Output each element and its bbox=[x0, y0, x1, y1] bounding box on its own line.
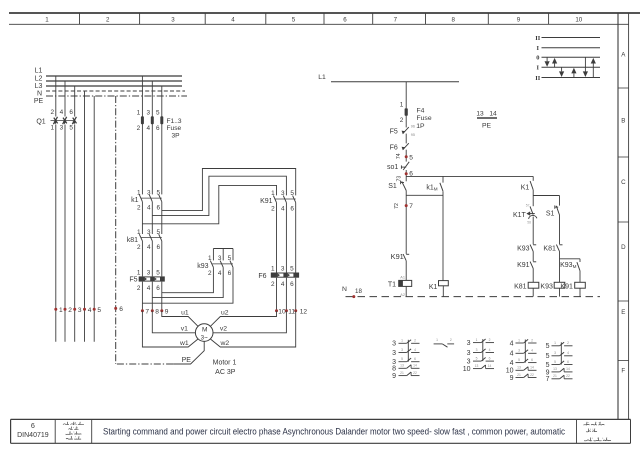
node 6 (wire 73) bbox=[405, 172, 408, 175]
node 8 bbox=[151, 309, 154, 312]
svg-text:F1..3: F1..3 bbox=[167, 118, 182, 125]
svg-text:2: 2 bbox=[567, 341, 569, 345]
wire K1T to contact K93 bbox=[532, 217, 534, 245]
svg-text:3: 3 bbox=[281, 266, 285, 273]
svg-text:7: 7 bbox=[546, 376, 550, 383]
svg-text:1: 1 bbox=[476, 338, 478, 342]
wire node 8 to motor v1 bbox=[152, 311, 195, 333]
svg-text:K91: K91 bbox=[260, 198, 273, 205]
svg-text:6: 6 bbox=[531, 358, 533, 362]
wire S1 to node 7 bbox=[405, 191, 407, 254]
svg-text:6: 6 bbox=[156, 204, 160, 211]
wire PE to motor (dash-dot) bbox=[116, 363, 173, 365]
svg-text:5: 5 bbox=[546, 353, 550, 360]
svg-text:F6: F6 bbox=[258, 273, 266, 280]
svg-text:3: 3 bbox=[467, 350, 471, 357]
wire node 11 to motor v2 bbox=[213, 311, 286, 333]
svg-text:K81: K81 bbox=[543, 245, 556, 252]
svg-text:1: 1 bbox=[400, 102, 404, 109]
svg-text:1: 1 bbox=[137, 189, 141, 196]
svg-text:T1: T1 bbox=[388, 282, 396, 289]
node 7 (wire 72) bbox=[405, 204, 408, 207]
node 6 bbox=[114, 307, 117, 310]
svg-text:Fuse: Fuse bbox=[167, 125, 182, 132]
wire F5 pole1 to node 7 bbox=[141, 282, 143, 311]
svg-text:3P: 3P bbox=[172, 133, 181, 140]
svg-text:2: 2 bbox=[271, 205, 275, 212]
svg-text:4: 4 bbox=[567, 351, 569, 355]
wire K81 contact to coil K93 bbox=[559, 251, 561, 282]
svg-text:4: 4 bbox=[531, 349, 533, 353]
svg-text:6: 6 bbox=[567, 360, 569, 364]
wire node 12 to motor w2 bbox=[210, 311, 295, 347]
svg-text:v2: v2 bbox=[220, 326, 227, 333]
svg-text:4: 4 bbox=[88, 307, 92, 314]
svg-text:N: N bbox=[342, 286, 347, 293]
svg-text:8: 8 bbox=[155, 309, 159, 316]
svg-text:K93: K93 bbox=[540, 284, 553, 291]
svg-text:2: 2 bbox=[137, 204, 141, 211]
wire K1 contact to junction bbox=[532, 190, 534, 206]
wire PE distribution bbox=[115, 96, 117, 364]
svg-text:22: 22 bbox=[530, 373, 534, 377]
svg-text:6: 6 bbox=[414, 357, 416, 361]
svg-text:1: 1 bbox=[401, 339, 403, 343]
svg-text:1P: 1P bbox=[416, 123, 425, 130]
wire so1 to node 6 bbox=[405, 170, 407, 181]
svg-text:5: 5 bbox=[290, 266, 294, 273]
svg-text:9: 9 bbox=[165, 309, 169, 316]
svg-text:4: 4 bbox=[147, 125, 151, 132]
wire coil K1 to N bbox=[442, 286, 444, 297]
wire F5 pole3 to node 9 bbox=[161, 282, 163, 311]
svg-text:21: 21 bbox=[553, 374, 557, 378]
svg-text:96: 96 bbox=[411, 125, 415, 129]
svg-text:K81: K81 bbox=[514, 284, 527, 291]
node 12 bbox=[294, 309, 297, 312]
svg-text:L1: L1 bbox=[35, 68, 43, 75]
svg-text:II: II bbox=[535, 35, 540, 42]
node 3 bbox=[73, 308, 76, 311]
svg-text:2: 2 bbox=[137, 285, 141, 292]
svg-text:3: 3 bbox=[467, 340, 471, 347]
svg-text:14: 14 bbox=[530, 366, 534, 370]
svg-text:5: 5 bbox=[69, 125, 73, 132]
svg-text:3: 3 bbox=[171, 17, 175, 24]
svg-text:S1: S1 bbox=[388, 183, 397, 190]
svg-text:K91: K91 bbox=[560, 284, 573, 291]
svg-text:74: 74 bbox=[396, 153, 402, 159]
svg-text:10: 10 bbox=[575, 17, 582, 24]
svg-text:1: 1 bbox=[518, 338, 520, 342]
svg-text:F5: F5 bbox=[390, 129, 398, 136]
node 4 bbox=[83, 308, 86, 311]
wire Q1 pole1 to node 1 bbox=[55, 125, 57, 342]
svg-text:3: 3 bbox=[554, 351, 556, 355]
svg-text:2: 2 bbox=[137, 125, 141, 132]
wire node 7 to motor w1 bbox=[142, 311, 198, 347]
wire node 6 to right branches bbox=[406, 175, 533, 177]
svg-text:1: 1 bbox=[436, 338, 438, 342]
node 2 bbox=[64, 308, 67, 311]
svg-text:1: 1 bbox=[271, 266, 275, 273]
svg-text:5: 5 bbox=[292, 17, 296, 24]
svg-text:5: 5 bbox=[554, 360, 556, 364]
svg-text:13: 13 bbox=[553, 367, 557, 371]
svg-text:1: 1 bbox=[137, 269, 141, 276]
svg-text:6: 6 bbox=[69, 109, 73, 116]
svg-text:3: 3 bbox=[147, 110, 151, 117]
wire K91 to overload F6 pole2 bbox=[285, 203, 287, 273]
bus L3 bbox=[46, 85, 182, 87]
wire K91 contact to coil T1 bbox=[405, 261, 407, 281]
svg-text:2: 2 bbox=[50, 109, 54, 116]
wire coil K93 to N bbox=[559, 288, 561, 296]
svg-text:8: 8 bbox=[451, 17, 455, 24]
svg-text:E: E bbox=[621, 309, 625, 316]
svg-text:F4: F4 bbox=[417, 107, 425, 114]
svg-text:2: 2 bbox=[531, 338, 533, 342]
svg-text:2: 2 bbox=[450, 338, 452, 342]
junction to K93M branch bbox=[560, 258, 581, 260]
wire K93 contact to contact K91 bbox=[532, 251, 534, 261]
node 7 bbox=[141, 309, 144, 312]
svg-text:12: 12 bbox=[300, 308, 308, 315]
svg-text:4: 4 bbox=[147, 285, 151, 292]
wire k81 to overload F5 pole1 bbox=[141, 241, 143, 277]
svg-text:F6: F6 bbox=[390, 145, 398, 152]
node 11 bbox=[285, 309, 288, 312]
svg-text:10: 10 bbox=[463, 366, 471, 373]
wire contact F6 to node 5 bbox=[405, 150, 407, 162]
wire k93 pole2 to node 8 bbox=[152, 267, 223, 297]
svg-text:4: 4 bbox=[510, 351, 514, 358]
svg-text:9: 9 bbox=[510, 375, 514, 382]
svg-text:u2: u2 bbox=[221, 309, 229, 316]
svg-text:10: 10 bbox=[278, 308, 286, 315]
svg-text:73: 73 bbox=[396, 176, 402, 182]
svg-text:6: 6 bbox=[290, 205, 294, 212]
svg-text:95: 95 bbox=[411, 133, 415, 137]
node 9 bbox=[160, 309, 163, 312]
svg-text:Motor 1: Motor 1 bbox=[213, 360, 237, 367]
junction to S1 branch bbox=[533, 195, 559, 197]
auxiliary contact k1M bbox=[442, 176, 444, 182]
svg-text:5: 5 bbox=[97, 307, 101, 314]
svg-text:k1: k1 bbox=[131, 197, 139, 204]
wire coil K91 to N bbox=[579, 288, 581, 296]
svg-text:4: 4 bbox=[147, 204, 151, 211]
svg-text:5: 5 bbox=[409, 154, 413, 161]
svg-text:14: 14 bbox=[413, 364, 417, 368]
svg-text:2: 2 bbox=[414, 339, 416, 343]
svg-text:N: N bbox=[37, 91, 42, 98]
wire k93 pole3 to node 7 bbox=[142, 267, 233, 303]
wire L1 to fuse F4 bbox=[405, 82, 407, 109]
svg-text:13: 13 bbox=[517, 366, 521, 370]
svg-text:4: 4 bbox=[60, 109, 64, 116]
wire k1M to coil K1 bbox=[442, 191, 444, 280]
svg-text:L1: L1 bbox=[318, 74, 326, 81]
node 5 bbox=[93, 308, 96, 311]
svg-text:6: 6 bbox=[119, 306, 123, 313]
svg-text:11: 11 bbox=[288, 308, 295, 315]
svg-text:1: 1 bbox=[59, 307, 63, 314]
svg-text:DIN40719: DIN40719 bbox=[17, 432, 49, 439]
wire S1 to contact K81 bbox=[559, 215, 561, 244]
svg-text:5: 5 bbox=[546, 362, 550, 369]
svg-text:57: 57 bbox=[526, 204, 530, 208]
svg-text:u1: u1 bbox=[181, 309, 189, 316]
wire junction to contact S1 bbox=[559, 196, 561, 206]
svg-text:22: 22 bbox=[566, 374, 570, 378]
svg-text:7: 7 bbox=[394, 17, 398, 24]
svg-text:6: 6 bbox=[290, 281, 294, 288]
svg-text:k93: k93 bbox=[197, 263, 208, 270]
node 10 bbox=[275, 309, 278, 312]
svg-text:4: 4 bbox=[281, 281, 285, 288]
svg-text:4: 4 bbox=[231, 17, 235, 24]
svg-text:5: 5 bbox=[518, 358, 520, 362]
svg-text:5: 5 bbox=[546, 343, 550, 350]
svg-text:13: 13 bbox=[475, 364, 479, 368]
svg-text:6: 6 bbox=[156, 285, 160, 292]
wire k1 to k81 pole3 bbox=[161, 202, 163, 234]
svg-text:10: 10 bbox=[506, 368, 514, 375]
svg-text:22: 22 bbox=[413, 371, 417, 375]
wire k93 pole1 to node 9 bbox=[162, 267, 214, 292]
wire F6 pole2 to node 11 bbox=[285, 278, 287, 311]
wire node 9 to motor u1 bbox=[162, 311, 198, 327]
svg-text:2: 2 bbox=[400, 117, 404, 124]
wire contact F5 to contact F6 bbox=[405, 134, 407, 144]
wire k1 to k81 pole1 bbox=[141, 202, 143, 234]
svg-text:II: II bbox=[535, 75, 540, 82]
svg-text:6: 6 bbox=[156, 244, 160, 251]
svg-text:18: 18 bbox=[355, 288, 362, 295]
svg-text:K1T: K1T bbox=[513, 212, 527, 219]
wire k1 pole3 to K91 pole3 bbox=[162, 169, 296, 211]
svg-text:5: 5 bbox=[156, 189, 160, 196]
svg-text:3: 3 bbox=[476, 348, 478, 352]
svg-text:S1: S1 bbox=[546, 211, 555, 218]
svg-text:4: 4 bbox=[218, 270, 222, 277]
wire K91 to overload F6 pole3 bbox=[295, 203, 297, 273]
wire F6 pole3 to node 12 bbox=[295, 278, 297, 311]
fuse F1..3 3P bbox=[141, 116, 144, 124]
svg-text:M: M bbox=[202, 326, 208, 333]
svg-text:9: 9 bbox=[392, 373, 396, 380]
svg-text:D: D bbox=[621, 244, 626, 251]
wire K91 contact to coil K81 bbox=[532, 268, 534, 282]
control bus L1 bbox=[331, 81, 459, 83]
wire branch to contact K1 bbox=[532, 176, 534, 180]
svg-text:Fuse: Fuse bbox=[417, 115, 432, 122]
svg-text:so1: so1 bbox=[387, 164, 398, 171]
svg-text:6: 6 bbox=[228, 270, 232, 277]
wire Q1 pole2 to node 2 bbox=[64, 125, 66, 342]
motor M1 AC 3P bbox=[195, 324, 213, 342]
svg-text:3: 3 bbox=[78, 307, 82, 314]
wire K91 to overload F6 pole1 bbox=[276, 203, 278, 273]
svg-text:3: 3 bbox=[392, 341, 396, 348]
svg-text:0: 0 bbox=[536, 55, 539, 62]
node 18 bbox=[352, 295, 355, 298]
svg-text:3: 3 bbox=[392, 350, 396, 357]
svg-text:6: 6 bbox=[489, 356, 491, 360]
wire k81 to overload F5 pole2 bbox=[151, 241, 153, 277]
wire k1 pole1 to K91 pole1 bbox=[142, 185, 276, 223]
svg-text:5: 5 bbox=[401, 357, 403, 361]
svg-text:B: B bbox=[621, 118, 625, 125]
svg-text:AC 3P: AC 3P bbox=[215, 369, 236, 376]
svg-text:C: C bbox=[621, 179, 626, 186]
svg-text:5: 5 bbox=[156, 269, 160, 276]
svg-text:F5: F5 bbox=[129, 277, 137, 284]
svg-text:6: 6 bbox=[31, 421, 35, 430]
svg-text:21: 21 bbox=[517, 373, 521, 377]
bus L1 bbox=[46, 75, 182, 77]
svg-text:1: 1 bbox=[45, 17, 49, 24]
svg-text:w1: w1 bbox=[179, 340, 189, 347]
svg-text:1: 1 bbox=[554, 341, 556, 345]
junction S1 / k1M bbox=[406, 194, 443, 196]
svg-text:2: 2 bbox=[489, 338, 491, 342]
svg-text:4: 4 bbox=[489, 348, 491, 352]
svg-text:w2: w2 bbox=[219, 340, 229, 347]
svg-text:14: 14 bbox=[488, 364, 492, 368]
svg-text:Q1: Q1 bbox=[36, 119, 45, 126]
svg-text:2: 2 bbox=[137, 244, 141, 251]
wire coil T1 to N bbox=[405, 286, 407, 296]
svg-text:2: 2 bbox=[208, 270, 212, 277]
wire k81 to overload F5 pole3 bbox=[161, 241, 163, 277]
node 1 bbox=[54, 308, 57, 311]
bus PE bbox=[46, 95, 187, 97]
bus L2 bbox=[46, 80, 182, 82]
wire k1 pole2 to K91 pole2 bbox=[152, 176, 286, 215]
svg-text:k1M: k1M bbox=[426, 184, 437, 191]
contactor k93 star bridge bbox=[213, 248, 233, 250]
svg-text:L3: L3 bbox=[35, 83, 43, 90]
svg-text:K91: K91 bbox=[517, 262, 530, 269]
svg-text:2: 2 bbox=[271, 281, 275, 288]
svg-text:21: 21 bbox=[400, 371, 404, 375]
svg-text:PE: PE bbox=[34, 98, 44, 105]
svg-text:K1: K1 bbox=[429, 284, 438, 291]
svg-text:2: 2 bbox=[106, 17, 110, 24]
svg-text:2: 2 bbox=[68, 307, 72, 314]
svg-text:7: 7 bbox=[409, 203, 413, 210]
svg-text:4: 4 bbox=[414, 348, 416, 352]
svg-text:4: 4 bbox=[281, 205, 285, 212]
svg-text:4: 4 bbox=[147, 244, 151, 251]
wire L1 drop to Q1 bbox=[55, 76, 57, 117]
title block bbox=[11, 418, 631, 420]
wire motor PE lead bbox=[173, 341, 204, 364]
svg-text:1: 1 bbox=[50, 125, 54, 132]
wire L2 to fuse F2 bbox=[151, 81, 153, 194]
svg-text:K1: K1 bbox=[521, 184, 530, 191]
svg-text:3: 3 bbox=[60, 125, 64, 132]
svg-text:Starting command and power cir: Starting command and power circuit elect… bbox=[103, 427, 565, 437]
svg-text:A1: A1 bbox=[400, 275, 405, 279]
wire PE drop to node 5 bbox=[93, 96, 95, 342]
contact table so1 bbox=[434, 343, 443, 345]
svg-text:3: 3 bbox=[147, 189, 151, 196]
svg-text:3: 3 bbox=[147, 269, 151, 276]
wire node 10 to motor u2 bbox=[210, 311, 276, 327]
wire L1 to fuse F1 bbox=[141, 76, 143, 194]
wire L3 to fuse F3 bbox=[161, 86, 163, 194]
svg-text:4: 4 bbox=[510, 340, 514, 347]
svg-text:58: 58 bbox=[527, 220, 531, 224]
svg-text:7: 7 bbox=[145, 309, 149, 316]
svg-text:8: 8 bbox=[392, 366, 396, 373]
svg-text:v1: v1 bbox=[181, 326, 188, 333]
wire K93M to coil K91 bbox=[579, 271, 581, 283]
svg-text:K91: K91 bbox=[391, 252, 404, 261]
svg-text:5: 5 bbox=[476, 356, 478, 360]
svg-text:K93: K93 bbox=[517, 245, 530, 252]
svg-text:72: 72 bbox=[394, 203, 400, 209]
svg-text:L2: L2 bbox=[35, 76, 43, 83]
wire Q1 pole3 to node 3 bbox=[74, 125, 76, 342]
svg-text:3: 3 bbox=[467, 359, 471, 366]
svg-text:14: 14 bbox=[489, 111, 497, 118]
svg-text:3: 3 bbox=[518, 349, 520, 353]
svg-text:6: 6 bbox=[156, 125, 160, 132]
auxiliary contact K93M bbox=[579, 259, 581, 262]
wire F5 pole2 to node 8 bbox=[151, 282, 153, 311]
svg-text:6: 6 bbox=[343, 17, 347, 24]
svg-text:13: 13 bbox=[476, 111, 484, 118]
wire L2 drop to Q1 bbox=[64, 81, 66, 117]
svg-text:PE: PE bbox=[182, 357, 192, 364]
bus N bbox=[46, 90, 185, 92]
svg-text:3: 3 bbox=[401, 348, 403, 352]
svg-text:3~: 3~ bbox=[201, 334, 208, 341]
svg-text:PE: PE bbox=[482, 123, 492, 130]
svg-text:1: 1 bbox=[137, 110, 141, 117]
wire coil K81 to N bbox=[532, 288, 534, 296]
svg-text:F: F bbox=[621, 368, 625, 375]
wire F4 to contact F5 bbox=[405, 116, 407, 128]
svg-text:13: 13 bbox=[400, 364, 404, 368]
svg-text:4: 4 bbox=[510, 360, 514, 367]
svg-text:9: 9 bbox=[517, 17, 521, 24]
wire L3 drop to Q1 bbox=[74, 86, 76, 117]
svg-text:K93M: K93M bbox=[560, 262, 576, 269]
wire F6 pole1 to node 10 bbox=[276, 278, 278, 311]
svg-text:5: 5 bbox=[156, 110, 160, 117]
wire N drop to node 4 bbox=[84, 91, 86, 342]
svg-text:14: 14 bbox=[566, 367, 570, 371]
wire k1 to k81 pole2 bbox=[151, 202, 153, 234]
